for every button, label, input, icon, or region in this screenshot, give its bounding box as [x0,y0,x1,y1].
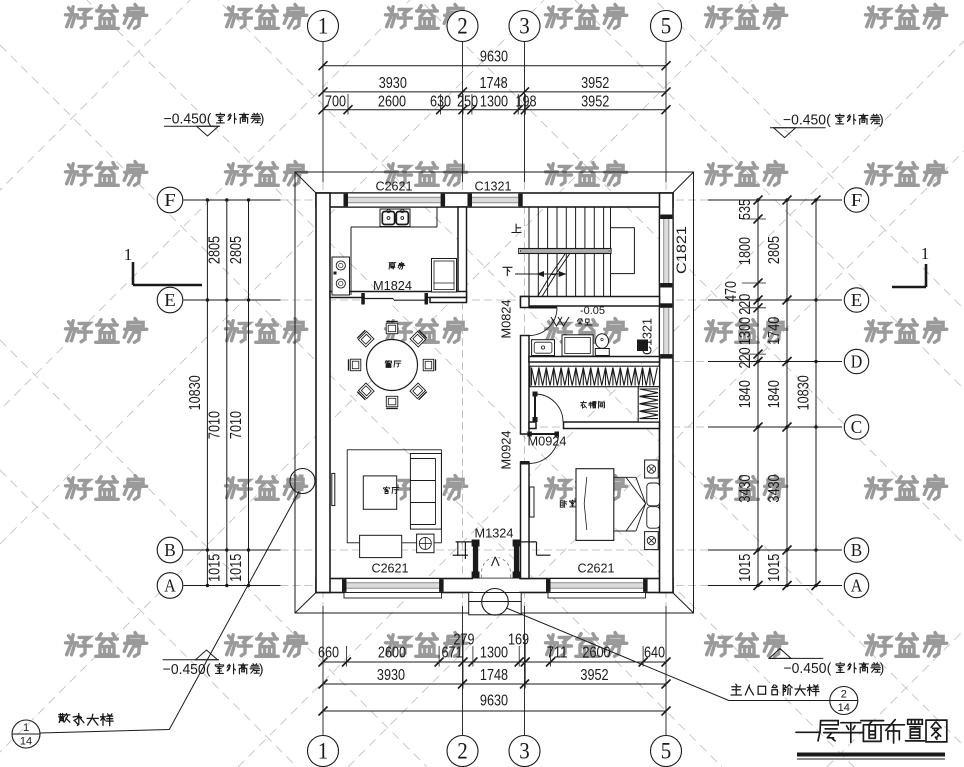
shower drain marks [551,317,562,326]
svg-text:−0.450: −0.450 [784,661,827,677]
svg-text:B: B [164,540,176,560]
duct pier [637,340,648,352]
elevation mark top-left [164,125,220,127]
svg-text:C1321: C1321 [475,179,512,194]
kitchen sink [380,209,410,227]
svg-text:2805: 2805 [228,236,245,264]
window C2621 bottom bedroom [551,579,644,593]
svg-text:A: A [164,576,176,596]
stair landing void [611,228,635,274]
watermark text grid [66,7,92,28]
drawing title [796,731,820,733]
svg-text:C1821: C1821 [673,226,689,274]
svg-text:2805: 2805 [766,236,783,264]
svg-text:7010: 7010 [206,411,223,439]
grid axis lines [322,42,324,183]
bedroom tv [530,487,534,517]
splash apron outline [295,172,694,613]
svg-text:5: 5 [661,14,672,39]
svg-text:630: 630 [430,93,451,110]
shower [562,335,593,356]
svg-text:): ) [879,111,884,127]
bed [576,469,614,541]
elevation mark bottom-right [770,657,824,659]
svg-text:(: ( [206,661,211,677]
window C1321 right (bath) [660,308,674,354]
svg-text:10830: 10830 [796,375,813,410]
svg-text:3430: 3430 [766,474,783,502]
svg-text:5: 5 [661,739,672,764]
entrance door M1324 [473,579,519,593]
elevation mark top-right [770,127,826,129]
svg-text:3430: 3430 [737,474,754,502]
svg-text:3930: 3930 [379,75,407,92]
kitchen counter [350,227,352,295]
kitchen stove [332,257,350,295]
svg-text:C: C [851,417,863,437]
window C2621 top (kitchen) [348,193,441,207]
svg-text:M1324: M1324 [475,526,514,541]
svg-text:640: 640 [644,645,665,662]
window C1821 right [660,219,674,283]
living room rug [347,450,441,543]
svg-text:1: 1 [23,722,29,734]
svg-text:1: 1 [921,244,930,263]
pillows [647,483,660,506]
svg-text:C2621: C2621 [372,561,409,576]
svg-text:3952: 3952 [581,75,609,92]
grid bubbles left [157,187,183,213]
svg-text:1748: 1748 [480,667,508,684]
svg-text:−0.450: −0.450 [164,112,207,128]
apron detail leader [290,469,315,494]
window sills bottom [344,593,442,599]
closet wardrobe top [530,366,660,387]
svg-text:1: 1 [318,14,329,39]
svg-text:10830: 10830 [187,375,204,410]
svg-text:198: 198 [515,93,536,110]
svg-text:1300: 1300 [480,93,508,110]
svg-text:660: 660 [318,645,339,662]
svg-text:C2621: C2621 [376,179,413,194]
room labels [389,263,396,270]
closet wardrobe right [638,387,659,422]
tv bench [360,535,402,557]
svg-text:1300: 1300 [737,317,754,345]
washbasin [532,340,555,356]
svg-text:2: 2 [457,14,468,39]
kitchen door M1824 [365,294,425,304]
grid bubbles right [844,188,868,212]
svg-text:1748: 1748 [480,75,508,92]
stair up/down labels [512,224,521,232]
exterior walls [316,193,673,207]
interior walls [458,207,467,298]
sofa [410,454,441,530]
toilet [595,349,609,356]
svg-text:): ) [259,661,264,677]
dining table [367,340,418,391]
svg-text:B: B [851,540,863,560]
svg-text:M0924: M0924 [499,431,514,470]
svg-text:(: ( [827,660,832,676]
svg-text:−0.450: −0.450 [783,113,826,129]
floor lamp [417,534,434,553]
nightstand top [645,460,659,478]
door M0924 (closet) [534,394,536,422]
left dimension lines [248,200,250,586]
svg-text:1740: 1740 [766,317,783,345]
svg-text:1015: 1015 [737,554,754,582]
svg-text:3952: 3952 [580,667,608,684]
stair handrail [519,249,611,254]
window C2621 bottom living [347,579,440,593]
entrance platform + detail circle [469,593,522,615]
entrance detail leader [507,608,858,700]
svg-text:3: 3 [519,739,530,764]
svg-text:D: D [851,352,863,372]
svg-text:(: ( [826,111,831,127]
svg-text:1015: 1015 [228,554,245,582]
elevation mark bottom-left [163,659,219,661]
svg-text:3930: 3930 [377,667,405,684]
svg-text:2600: 2600 [582,645,610,662]
stair break line [538,254,566,297]
svg-text:250: 250 [457,93,478,110]
svg-text:14: 14 [20,736,32,748]
svg-text:−0.450: −0.450 [163,662,206,678]
svg-text:E: E [851,290,863,310]
coffee table [363,476,396,509]
svg-text:1: 1 [318,739,329,764]
svg-text:2: 2 [841,689,847,701]
watermark diagonal dashed lines [0,0,190,767]
svg-text:1: 1 [124,245,133,264]
svg-text:C1321: C1321 [640,318,655,355]
svg-text:14: 14 [838,702,850,714]
bottom dimension lines [323,661,666,663]
svg-text:7010: 7010 [228,411,245,439]
stair landing edge [610,207,612,297]
svg-text:220: 220 [737,294,754,315]
svg-text:): ) [260,110,265,126]
svg-text:2600: 2600 [378,93,406,110]
svg-text:M0924: M0924 [528,434,567,449]
svg-text:): ) [880,660,885,676]
svg-text:-0.05: -0.05 [580,305,605,317]
svg-text:2: 2 [457,739,468,764]
door M0824 (bath) [529,307,557,309]
fridge [432,259,457,293]
svg-text:(: ( [207,110,212,126]
svg-text:F: F [851,190,863,210]
svg-text:M0824: M0824 [499,300,514,339]
right dimension lines [757,200,759,586]
svg-text:9630: 9630 [480,49,508,66]
top dimension lines [323,65,666,67]
door M0924 (bedroom) [529,433,559,435]
svg-text:3: 3 [519,14,530,39]
grid bubbles top/bottom [308,11,339,42]
svg-text:3952: 3952 [581,93,609,110]
svg-text:700: 700 [325,93,346,110]
stairs [528,207,530,297]
svg-text:1015: 1015 [206,554,223,582]
svg-text:A: A [851,576,863,596]
tv on wall [332,473,335,505]
svg-text:9630: 9630 [480,693,508,710]
nightstand bottom [645,532,659,550]
svg-text:711: 711 [546,645,567,662]
svg-text:C2621: C2621 [578,561,615,576]
svg-text:220: 220 [737,347,754,368]
svg-text:169: 169 [508,632,529,649]
svg-text:F: F [164,190,176,210]
svg-text:1840: 1840 [737,380,754,408]
svg-text:E: E [164,290,176,310]
svg-text:2805: 2805 [206,236,223,264]
svg-text:1800: 1800 [737,237,754,265]
svg-text:M1824: M1824 [373,278,412,293]
svg-text:1015: 1015 [766,554,783,582]
svg-text:1300: 1300 [480,645,508,662]
window C1321 top [472,193,518,207]
svg-text:1840: 1840 [766,380,783,408]
svg-text:2600: 2600 [378,645,406,662]
stair direction arrows [515,273,566,275]
svg-text:279: 279 [453,632,474,649]
svg-text:535: 535 [737,199,754,220]
